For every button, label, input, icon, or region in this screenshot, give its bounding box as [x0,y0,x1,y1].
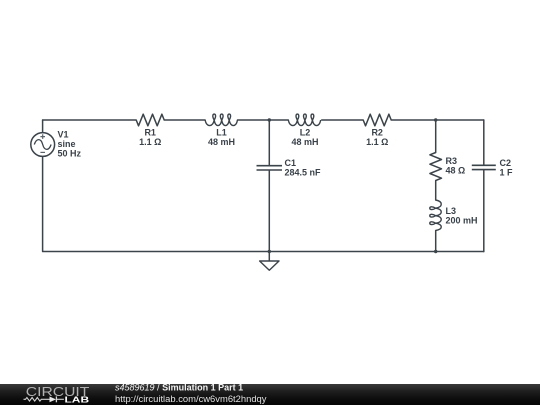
inductor L2 [288,114,320,147]
wire C1 top [268,120,270,165]
inductor L1 [205,114,237,147]
svg-text:1.1 Ω: 1.1 Ω [366,137,388,147]
node B junction dot (R3 top) [434,118,437,121]
capacitor C2 [472,158,513,177]
svg-text:R2: R2 [371,128,383,138]
svg-text:48 mH: 48 mH [208,137,235,147]
wire C1 bottom [268,171,270,252]
svg-text:http://circuitlab.com/cw6vm6t2: http://circuitlab.com/cw6vm6t2hndqy [115,394,267,404]
svg-text:284.5 nF: 284.5 nF [285,167,322,177]
svg-text:s4589619 / Simulation 1 Part 1: s4589619 / Simulation 1 Part 1 [115,383,243,393]
CircuitLab logo [24,384,90,404]
voltage source V1 [31,130,82,159]
capacitor C1 [257,158,322,177]
svg-text:L1: L1 [216,128,227,138]
wire top rail node A to R2 [322,119,364,121]
wire left rail lower [43,156,270,251]
resistor R3 [430,153,465,181]
node A junction dot (C1 top) [268,118,271,121]
wire top rail L1 to node A [238,119,289,121]
svg-text:200 mH: 200 mH [446,216,478,226]
wire top rail R1 to L1 [164,119,205,121]
wire R3 to L3 [435,181,437,201]
svg-text:R1: R1 [144,128,156,138]
wire top rail V1 to R1 [43,119,137,121]
wire left rail upper [42,120,44,133]
wire bottom rail right [269,251,484,253]
svg-text:1.1 Ω: 1.1 Ω [139,137,161,147]
wire L3 bottom [435,231,437,252]
svg-text:1 F: 1 F [500,167,514,177]
svg-text:L2: L2 [300,128,311,138]
resistor R2 [363,114,391,147]
wire top rail R2 to right [391,119,484,121]
ground [260,252,279,271]
svg-text:LAB: LAB [65,394,90,404]
wire right rail lower [483,170,485,251]
wire R3 branch top [435,120,437,153]
svg-text:48 Ω: 48 Ω [446,166,466,176]
svg-text:48 mH: 48 mH [291,137,318,147]
wire right rail upper [483,120,485,165]
svg-text:50 Hz: 50 Hz [58,148,82,158]
inductor L3 [430,200,478,231]
resistor R1 [136,114,164,147]
ground node junction dot [268,250,271,253]
bottom junction dot (L3 bottom) [434,250,437,253]
